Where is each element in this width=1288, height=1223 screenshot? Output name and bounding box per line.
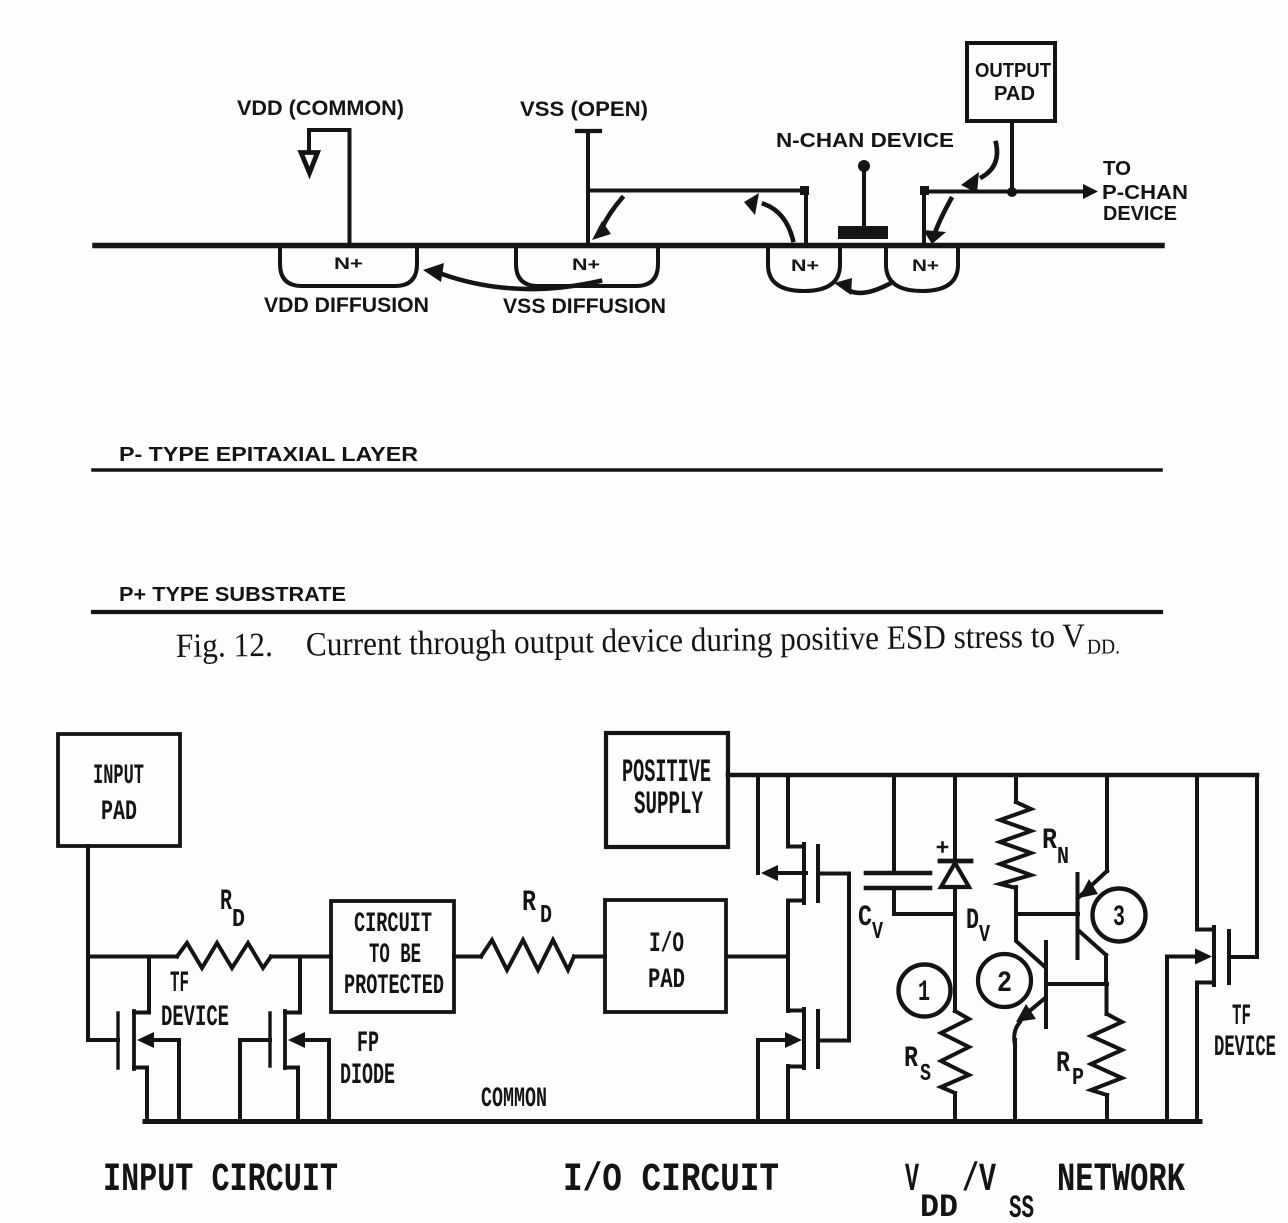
svg-text:DEVICE: DEVICE: [161, 1001, 229, 1035]
svg-text:R: R: [904, 1042, 918, 1076]
svg-text:PAD: PAD: [648, 965, 685, 996]
svg-text:R: R: [1042, 824, 1057, 858]
svg-text:OUTPUT: OUTPUT: [975, 60, 1051, 82]
svg-text:3: 3: [1113, 901, 1125, 935]
svg-text:2: 2: [997, 967, 1012, 1001]
svg-text:COMMON: COMMON: [481, 1084, 547, 1115]
svg-text:D: D: [540, 900, 552, 930]
svg-text:I/O: I/O: [649, 929, 684, 960]
svg-text:PAD: PAD: [994, 83, 1035, 105]
svg-text:TF: TF: [1232, 1000, 1251, 1034]
svg-text:NETWORK: NETWORK: [1057, 1158, 1185, 1203]
svg-text:N-CHAN DEVICE: N-CHAN DEVICE: [776, 130, 954, 152]
svg-text:V: V: [872, 919, 883, 946]
svg-text:P: P: [1072, 1065, 1084, 1092]
svg-text:/V: /V: [962, 1158, 996, 1203]
svg-text:VSS DIFFUSION: VSS DIFFUSION: [503, 295, 666, 318]
svg-text:N+: N+: [791, 256, 819, 275]
svg-text:R: R: [522, 886, 536, 920]
svg-text:PROTECTED: PROTECTED: [344, 971, 444, 1002]
svg-text:N+: N+: [572, 255, 600, 274]
svg-text:PAD: PAD: [101, 797, 137, 828]
svg-text:SS: SS: [1009, 1190, 1034, 1223]
svg-text:C: C: [858, 901, 872, 935]
svg-text:P- TYPE EPITAXIAL LAYER: P- TYPE EPITAXIAL LAYER: [119, 443, 418, 466]
svg-text:TO BE: TO BE: [369, 940, 421, 971]
svg-text:VSS (OPEN): VSS (OPEN): [520, 98, 648, 121]
svg-text:VDD DIFFUSION: VDD DIFFUSION: [264, 294, 429, 317]
svg-text:D: D: [966, 904, 979, 938]
svg-text:D: D: [232, 904, 245, 934]
svg-text:N+: N+: [334, 254, 363, 273]
svg-text:P-CHAN: P-CHAN: [1102, 182, 1188, 204]
svg-text:Current through output device: Current through output device during pos…: [306, 618, 1086, 664]
svg-text:Fig. 12.: Fig. 12.: [176, 627, 273, 665]
svg-text:I/O CIRCUIT: I/O CIRCUIT: [563, 1158, 779, 1203]
svg-text:V: V: [979, 922, 990, 949]
svg-text:S: S: [920, 1061, 931, 1088]
svg-text:TO: TO: [1103, 158, 1131, 180]
svg-text:INPUT: INPUT: [93, 761, 144, 792]
svg-text:FP: FP: [357, 1027, 379, 1061]
svg-text:SUPPLY: SUPPLY: [634, 786, 703, 823]
svg-text:V: V: [905, 1158, 919, 1203]
svg-text:DEVICE: DEVICE: [1214, 1031, 1276, 1065]
svg-text:TF: TF: [170, 967, 189, 1001]
svg-text:P+ TYPE SUBSTRATE: P+ TYPE SUBSTRATE: [119, 583, 346, 606]
svg-text:R: R: [1056, 1047, 1070, 1081]
svg-text:1: 1: [918, 976, 930, 1010]
svg-text:DD.: DD.: [1087, 634, 1120, 658]
svg-text:N+: N+: [912, 256, 939, 275]
svg-text:INPUT CIRCUIT: INPUT CIRCUIT: [103, 1158, 338, 1203]
svg-text:R: R: [220, 885, 232, 919]
svg-text:N: N: [1057, 844, 1069, 871]
svg-text:VDD (COMMON): VDD (COMMON): [237, 97, 404, 120]
svg-text:CIRCUIT: CIRCUIT: [354, 909, 432, 940]
svg-text:DD: DD: [920, 1189, 958, 1223]
svg-text:DEVICE: DEVICE: [1103, 203, 1177, 225]
svg-text:DIODE: DIODE: [340, 1059, 395, 1093]
